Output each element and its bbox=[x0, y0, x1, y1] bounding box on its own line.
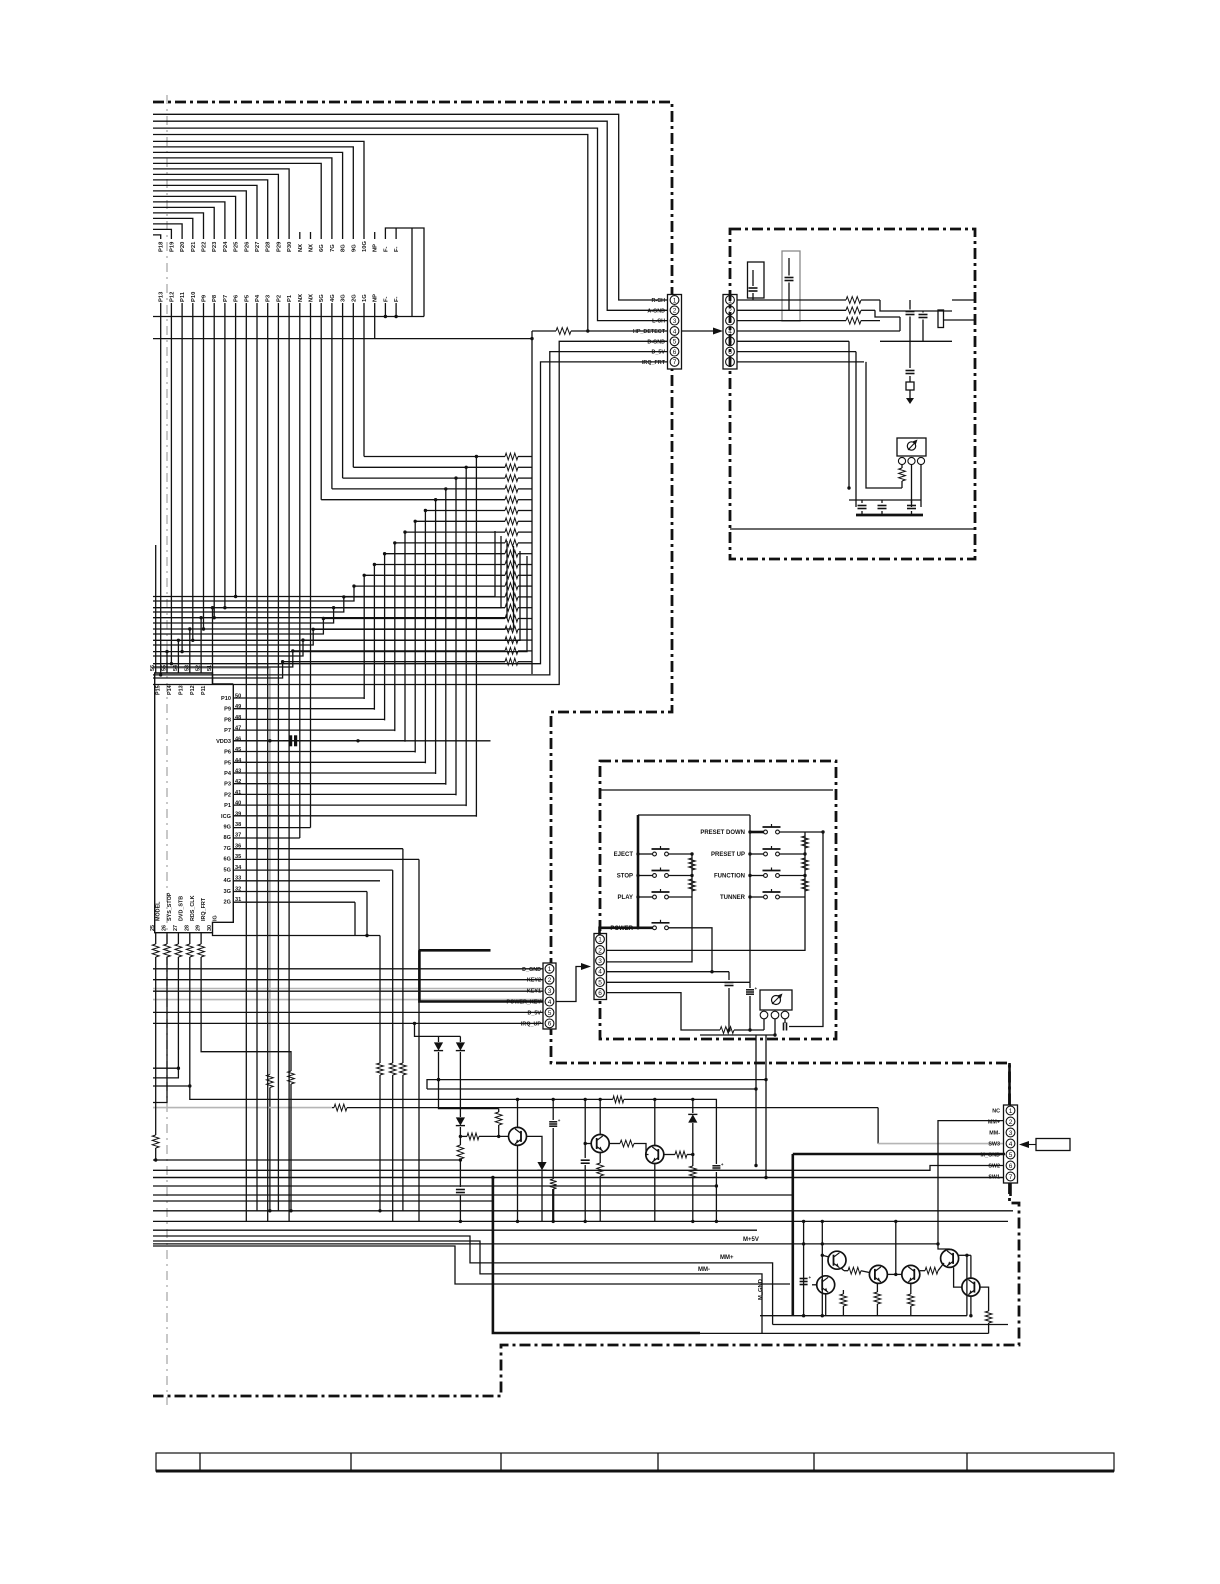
junction F- pins bbox=[384, 315, 398, 318]
wire Q1 base feed bbox=[460, 1133, 508, 1140]
label box pointer bbox=[1019, 1139, 1070, 1151]
resistor ladder row wire bbox=[334, 604, 532, 611]
wire ladder column to IC pin bbox=[424, 511, 426, 764]
svg-text:P28: P28 bbox=[266, 241, 272, 252]
switch PRESET UP bbox=[763, 846, 781, 856]
svg-text:P9: P9 bbox=[224, 707, 231, 713]
connector motor pin 3 bbox=[1006, 1128, 1015, 1137]
wire D_GND feed bbox=[153, 968, 543, 970]
wire staircase to FFC pin bbox=[153, 229, 171, 239]
resistor hp L bbox=[846, 317, 880, 324]
wire NC thick bbox=[1008, 1063, 1011, 1105]
wire D-GND bus bbox=[153, 341, 668, 684]
wire IC 3G bbox=[233, 891, 367, 893]
svg-text:1: 1 bbox=[1009, 1108, 1013, 1115]
wire Q1 emitter bbox=[516, 1145, 519, 1223]
wire hp top rail bbox=[849, 499, 921, 501]
svg-text:KEY1: KEY1 bbox=[527, 989, 541, 995]
wire kb matrix top bbox=[638, 814, 750, 816]
wire Q3 collector bbox=[653, 1098, 656, 1146]
IC pin number 44 bbox=[235, 758, 242, 764]
svg-text:P11: P11 bbox=[201, 686, 207, 695]
svg-text:P10: P10 bbox=[221, 696, 231, 702]
junction kb btn bbox=[636, 895, 639, 898]
wire M2-M3 link bbox=[887, 1273, 901, 1276]
svg-text:IG: IG bbox=[213, 915, 219, 921]
arrow HP harness bbox=[682, 328, 724, 335]
junction IR bus bbox=[805, 830, 825, 833]
svg-text:F-: F- bbox=[394, 296, 400, 302]
svg-text:4: 4 bbox=[1009, 1141, 1013, 1148]
wire kb btn right row bbox=[750, 875, 764, 877]
resistor Mr3 bbox=[907, 1283, 914, 1315]
wire M5 base bbox=[812, 1284, 817, 1286]
title block table bbox=[156, 1453, 1114, 1471]
wire HP_DETECT net horizontal bbox=[153, 338, 532, 340]
wire MM+ pin2 riser bbox=[936, 1121, 1005, 1246]
label M_GND vertical bbox=[758, 1279, 764, 1300]
label KEY2 bbox=[527, 978, 541, 984]
wire left exit 1068 bbox=[153, 1067, 180, 1070]
wire IC 5G bbox=[233, 869, 392, 871]
label L-CH bbox=[652, 319, 665, 325]
wire hp pin1 bbox=[737, 299, 846, 301]
ground bus hp (thick) bbox=[856, 514, 923, 517]
wire P13 column bbox=[159, 303, 162, 677]
wire ladder column to IC pin bbox=[455, 478, 457, 795]
wire MM+ label run bbox=[153, 1236, 773, 1325]
wire SYS_STOP column bbox=[153, 957, 167, 1103]
junction Q1 base bbox=[459, 1135, 501, 1138]
wire ladder column to IC pin bbox=[373, 565, 375, 710]
junction IRQ_UP branch bbox=[413, 1022, 416, 1025]
capacitor hp c2 bbox=[878, 500, 887, 515]
wire IC pin to ladder bbox=[233, 708, 374, 710]
resistor ladder junction bbox=[281, 660, 284, 663]
gray fold line (vertical dash-dot) bbox=[166, 95, 168, 1405]
wire IC pin to ladder bbox=[233, 815, 476, 817]
wire ladder column to IC pin bbox=[445, 489, 447, 785]
svg-text:5G: 5G bbox=[224, 867, 231, 873]
wire 3G drop bbox=[366, 892, 368, 936]
transistor M4 bbox=[941, 1249, 959, 1267]
connector headphone board body bbox=[723, 295, 737, 370]
connector motor pin 7 bbox=[1006, 1172, 1015, 1181]
wire IRQ_UP diode branch bbox=[415, 1023, 461, 1036]
transistor Q3 bbox=[646, 1146, 664, 1164]
svg-text:POWER_KEY: POWER_KEY bbox=[507, 1000, 542, 1006]
junction IG bbox=[365, 934, 368, 937]
wire 2G drop bbox=[354, 902, 356, 935]
gray net SW3 wire segment bbox=[153, 1107, 332, 1109]
wire bundle 617 bbox=[153, 541, 507, 618]
IC pin number 45 bbox=[235, 747, 241, 753]
bus bottom 1210 bbox=[153, 1210, 1013, 1212]
IC bottom pin number bbox=[207, 925, 213, 931]
connector hp pin 4 bbox=[726, 327, 735, 336]
junction kb B bbox=[803, 852, 806, 877]
IC pin number 39 bbox=[235, 811, 241, 817]
svg-text:F-: F- bbox=[383, 296, 389, 302]
IC bottom pin label IG bbox=[213, 915, 219, 921]
svg-text:2: 2 bbox=[598, 947, 602, 954]
svg-text:P3: P3 bbox=[224, 782, 231, 788]
svg-text:P9: P9 bbox=[202, 294, 208, 302]
svg-text:PLAY: PLAY bbox=[618, 895, 633, 901]
resistor Q3 out bbox=[664, 1151, 693, 1158]
svg-text:6: 6 bbox=[673, 349, 677, 356]
label D_GND bbox=[522, 967, 541, 973]
connector kb board pin 6 bbox=[596, 988, 605, 997]
wire kb bus left (thick) bbox=[637, 815, 640, 928]
svg-text:5: 5 bbox=[673, 339, 677, 346]
IC pin label P5 bbox=[224, 760, 231, 766]
resistor col 460 bbox=[457, 1145, 464, 1187]
label A-GND bbox=[647, 308, 665, 314]
wire ladder column to IC pin bbox=[414, 521, 416, 752]
connector audio pin 3 bbox=[670, 316, 679, 325]
wire staircase to FFC pin bbox=[153, 169, 289, 239]
svg-text:P24: P24 bbox=[223, 241, 229, 252]
wire kb power bus (thick) bbox=[600, 928, 654, 935]
svg-text:56: 56 bbox=[150, 665, 156, 671]
wire ladder column to left bundle bbox=[153, 640, 303, 656]
IC pin label VDD3 bbox=[216, 739, 231, 745]
svg-text:P18: P18 bbox=[159, 241, 165, 252]
IC pin label 7G bbox=[224, 846, 231, 852]
wire IC pin to ladder bbox=[233, 804, 466, 806]
switch PLAY bbox=[652, 889, 670, 899]
resistor Mr1 bbox=[840, 1290, 847, 1316]
label IRQ_FRT bbox=[642, 360, 666, 366]
junction HP_DETECT bus bbox=[530, 337, 533, 340]
wire P6 column bbox=[234, 303, 237, 598]
connector kb main pin 1 bbox=[545, 964, 554, 973]
svg-text:P6: P6 bbox=[234, 294, 240, 302]
svg-text:53: 53 bbox=[184, 665, 190, 671]
capacitor in jack1 bbox=[749, 270, 758, 300]
FFC row1 pin stub bbox=[310, 232, 312, 239]
resistor ladder row wire bbox=[415, 518, 532, 525]
resistor ladder junction bbox=[434, 498, 437, 501]
connector motor body bbox=[1004, 1105, 1018, 1183]
wire D1 col down bbox=[439, 1080, 499, 1109]
connector kb board pin 2 bbox=[596, 946, 605, 955]
wire KEY1 feed bbox=[153, 990, 543, 992]
wire kb col B bbox=[804, 832, 806, 897]
svg-text:55: 55 bbox=[162, 665, 168, 671]
wire kb col A down bbox=[607, 897, 693, 962]
svg-text:10G: 10G bbox=[362, 241, 368, 252]
svg-text:P2: P2 bbox=[224, 792, 231, 798]
wire IRQ_FRT bus bbox=[153, 362, 668, 664]
IC U1 body bbox=[155, 673, 234, 933]
wire M5 emitter bbox=[825, 1294, 827, 1316]
wire motor v2 bbox=[821, 1220, 824, 1318]
svg-text:P12: P12 bbox=[169, 292, 175, 302]
resistor col 392.7 bbox=[389, 1063, 396, 1221]
diode D1 bbox=[434, 1036, 443, 1079]
junction kb POWER right bbox=[710, 970, 713, 973]
resistor ladder junction bbox=[383, 552, 386, 555]
wire hp right net2 bbox=[875, 310, 900, 317]
svg-text:4G: 4G bbox=[224, 878, 231, 884]
connector hp pin 2 bbox=[726, 306, 735, 315]
resistor ladder junction bbox=[342, 595, 345, 598]
resistor ladder junction bbox=[465, 466, 468, 469]
component hp bead bbox=[906, 382, 914, 390]
wire col 553 top bbox=[552, 1098, 555, 1120]
wire bundle 629 bbox=[153, 546, 514, 629]
label NC bbox=[992, 1109, 1000, 1115]
svg-text:1: 1 bbox=[673, 297, 677, 304]
wire kb btn right row bbox=[750, 896, 764, 898]
wire col 585 top bbox=[584, 1098, 587, 1146]
wire kb btn left bbox=[638, 875, 653, 877]
wire POWER_KEY thick top bbox=[419, 949, 490, 952]
wire SW1 long bbox=[153, 1177, 1005, 1179]
svg-text:NX: NX bbox=[309, 244, 315, 252]
junction VDD3 gray bbox=[268, 739, 271, 742]
IC pin number 46 bbox=[235, 736, 241, 742]
svg-text:3: 3 bbox=[1009, 1130, 1013, 1137]
wire IC 6G bbox=[233, 858, 419, 860]
svg-text:3: 3 bbox=[673, 318, 677, 325]
wire IC bottom pin bbox=[164, 933, 171, 957]
svg-text:NX: NX bbox=[298, 244, 304, 252]
resistor MODEL lower bbox=[152, 1135, 159, 1162]
switch FUNCTION bbox=[763, 868, 781, 878]
wire VDD3 bbox=[233, 740, 490, 742]
resistor ladder junction bbox=[312, 628, 315, 631]
transistor Q2 bbox=[591, 1135, 609, 1153]
IC pin label 6G bbox=[224, 857, 231, 863]
wire bundle 640 bbox=[153, 551, 520, 640]
wire staircase to FFC pin bbox=[153, 141, 364, 239]
switch POWER bbox=[652, 920, 670, 930]
svg-text:P27: P27 bbox=[255, 242, 261, 252]
wire riser 895 bbox=[894, 1220, 897, 1275]
resistor ladder junction bbox=[414, 520, 417, 523]
wire P11 column bbox=[180, 303, 183, 653]
resistor 693 bbox=[689, 1155, 696, 1224]
svg-text:4: 4 bbox=[598, 969, 602, 976]
wire F- bracket vertical bbox=[411, 228, 413, 317]
wire col 553 thick tail bbox=[552, 1189, 555, 1223]
junction kb btn bbox=[636, 874, 639, 877]
svg-text:7G: 7G bbox=[224, 846, 231, 852]
label MM- bbox=[989, 1131, 1000, 1137]
wire col 402.9 down bbox=[402, 849, 404, 1063]
resistor col 380 bbox=[377, 1063, 384, 1213]
IC pin number 37 bbox=[235, 833, 241, 839]
svg-text:PRESET DOWN: PRESET DOWN bbox=[700, 830, 745, 836]
svg-text:2: 2 bbox=[548, 977, 552, 984]
resistor Q2-Q3 bbox=[609, 1140, 649, 1154]
label PRESET UP bbox=[711, 852, 745, 858]
capacitor rail end bbox=[712, 1162, 724, 1223]
wire P2 column bbox=[277, 303, 279, 1211]
wire bundle 1186 bbox=[153, 1184, 718, 1187]
svg-text:5: 5 bbox=[598, 979, 602, 986]
svg-text:1: 1 bbox=[598, 937, 602, 944]
wire ladder column to IC pin bbox=[465, 467, 467, 806]
IC top pin number bbox=[150, 665, 156, 671]
wire sensor right pin bbox=[920, 465, 922, 507]
resistor Q2 emitter bbox=[597, 1153, 604, 1222]
svg-text:P10: P10 bbox=[191, 292, 197, 302]
IC pin number 41 bbox=[235, 790, 241, 796]
wire rail 1079.6 bbox=[427, 1078, 768, 1089]
resistor ladder row wire bbox=[344, 594, 532, 601]
wire bundle 596 bbox=[153, 531, 495, 597]
wire motor connector bottom thick bbox=[1009, 1183, 1012, 1196]
wire kb btn right out bbox=[779, 831, 805, 833]
wire P1 column bbox=[288, 303, 290, 1221]
wire kb btn right out bbox=[779, 896, 805, 898]
svg-text:P3: P3 bbox=[266, 294, 272, 302]
svg-text:25: 25 bbox=[150, 925, 156, 931]
IC top pin 53 bbox=[188, 627, 191, 673]
wire IC 4G bbox=[233, 880, 380, 882]
label PLAY bbox=[618, 895, 633, 901]
svg-text:P20: P20 bbox=[180, 242, 186, 252]
wire Q1 collector bbox=[516, 1098, 519, 1128]
svg-text:PRESET UP: PRESET UP bbox=[711, 852, 745, 858]
wire hp pin7 bbox=[737, 361, 864, 363]
svg-text:DVD_STB: DVD_STB bbox=[178, 896, 184, 921]
switch EJECT bbox=[652, 846, 670, 856]
IR sensor box bbox=[760, 990, 792, 1010]
wire rail 1099 tail bbox=[624, 1099, 717, 1164]
wire ladder column to left bundle bbox=[153, 662, 283, 678]
wire MM- label run bbox=[153, 1241, 762, 1333]
svg-text:D_GND: D_GND bbox=[522, 967, 541, 973]
label SW1 bbox=[988, 1175, 1000, 1181]
wire kb btn right out bbox=[779, 875, 805, 877]
wire motor v1 bbox=[802, 1220, 805, 1318]
svg-text:26: 26 bbox=[162, 925, 168, 931]
transistor M6 bbox=[962, 1278, 980, 1296]
svg-text:P26: P26 bbox=[244, 241, 250, 252]
main board boundary (dash-dot) bbox=[153, 102, 1010, 1105]
wire P5 column bbox=[245, 303, 247, 1221]
resistor M1-M2 bbox=[844, 1267, 869, 1274]
wire kb col A bbox=[691, 854, 693, 897]
svg-text:1G: 1G bbox=[362, 294, 368, 302]
FFC row1 pin stub bbox=[299, 232, 301, 239]
wire kb btn right row bbox=[750, 831, 764, 834]
wire staircase to FFC pin bbox=[153, 196, 236, 239]
wire IR pins down bbox=[764, 1019, 785, 1035]
connector hp pin 7 bbox=[726, 358, 735, 367]
resistor kb A2 bbox=[689, 879, 696, 891]
resistor M3-M4 bbox=[920, 1263, 944, 1274]
svg-text:8G: 8G bbox=[341, 244, 347, 252]
svg-text:MODEL: MODEL bbox=[156, 901, 162, 921]
svg-text:+: + bbox=[558, 1118, 561, 1123]
svg-text:51: 51 bbox=[207, 665, 213, 671]
IC pin label 4G bbox=[224, 878, 231, 884]
transistor M2 bbox=[869, 1265, 887, 1283]
svg-text:M+5V: M+5V bbox=[743, 1237, 759, 1243]
svg-text:KEY2: KEY2 bbox=[527, 978, 541, 984]
IC top pin number bbox=[196, 665, 202, 671]
capacitor in jack2 bbox=[785, 258, 794, 310]
wire kb matrix right bbox=[749, 815, 751, 982]
IC pin number 40 bbox=[235, 801, 241, 807]
wire IC pin to ladder bbox=[233, 729, 394, 731]
wire col 392.7 down bbox=[392, 870, 394, 1063]
svg-text:2G: 2G bbox=[224, 900, 231, 906]
wire sensor mid pin bbox=[911, 465, 913, 507]
wire T2 base bbox=[585, 1143, 591, 1145]
wire KEY2 feed bbox=[153, 979, 543, 981]
wire kb bottom rail 2 bbox=[700, 1033, 777, 1036]
wire ladder column to left bundle bbox=[153, 651, 293, 667]
svg-text:P29: P29 bbox=[276, 241, 282, 252]
svg-text:P13: P13 bbox=[178, 685, 184, 695]
wire ladder column to IC pin bbox=[363, 575, 365, 699]
svg-text:NC: NC bbox=[992, 1109, 1000, 1115]
transistor M1 bbox=[828, 1251, 846, 1269]
IC pin number 31 bbox=[235, 897, 241, 903]
resistor ladder row wire bbox=[332, 486, 532, 493]
jack symbol 1 bbox=[748, 262, 765, 298]
label D-GND bbox=[647, 339, 665, 345]
resistor ladder row wire bbox=[354, 583, 532, 590]
connector audio pin 1 bbox=[670, 296, 679, 305]
resistor col 553 bbox=[550, 1179, 557, 1189]
svg-text:4: 4 bbox=[548, 999, 552, 1006]
resistor ladder row wire bbox=[364, 453, 532, 460]
IC top pin number bbox=[207, 665, 213, 671]
diode D2 bbox=[456, 1036, 465, 1117]
wire hp pin3 bbox=[737, 320, 846, 322]
svg-text:30: 30 bbox=[207, 925, 213, 931]
wire IRQ_FRT column bbox=[201, 957, 291, 1071]
resistor ladder junction bbox=[291, 649, 294, 652]
wire kb pin4 link bbox=[607, 971, 730, 973]
label D_5V bbox=[652, 350, 666, 356]
wire staircase to FFC pin bbox=[153, 147, 353, 239]
svg-text:3: 3 bbox=[728, 318, 732, 325]
component hp box bbox=[938, 310, 944, 328]
wire P8 column bbox=[213, 303, 216, 619]
svg-text:R-CH: R-CH bbox=[652, 298, 666, 304]
wire kb btn left bbox=[638, 896, 653, 898]
wire bundle 1201 bbox=[153, 1200, 493, 1202]
svg-text:D_5V: D_5V bbox=[528, 1011, 542, 1017]
wire Q1 out right bbox=[527, 1136, 543, 1162]
wire kb bottom rail bbox=[727, 1028, 751, 1031]
svg-text:P5: P5 bbox=[224, 760, 231, 766]
wire hp pin6 bbox=[737, 351, 856, 353]
wire ladder column to left bundle bbox=[153, 597, 344, 612]
label IRQ_UP bbox=[521, 1021, 541, 1027]
remote sensor pins bbox=[898, 457, 924, 464]
svg-text:P19: P19 bbox=[169, 241, 175, 252]
IC pin label P8 bbox=[224, 717, 231, 723]
svg-text:P1: P1 bbox=[224, 803, 231, 809]
svg-text:2: 2 bbox=[1009, 1119, 1013, 1126]
wire hp gnd rail bbox=[880, 340, 952, 342]
svg-text:3: 3 bbox=[548, 988, 552, 995]
connector hp pin 3 bbox=[726, 316, 735, 325]
label EJECT bbox=[614, 852, 634, 858]
resistor VDD gray col bbox=[267, 1075, 274, 1213]
wire ladder column to IC pin bbox=[404, 532, 406, 742]
